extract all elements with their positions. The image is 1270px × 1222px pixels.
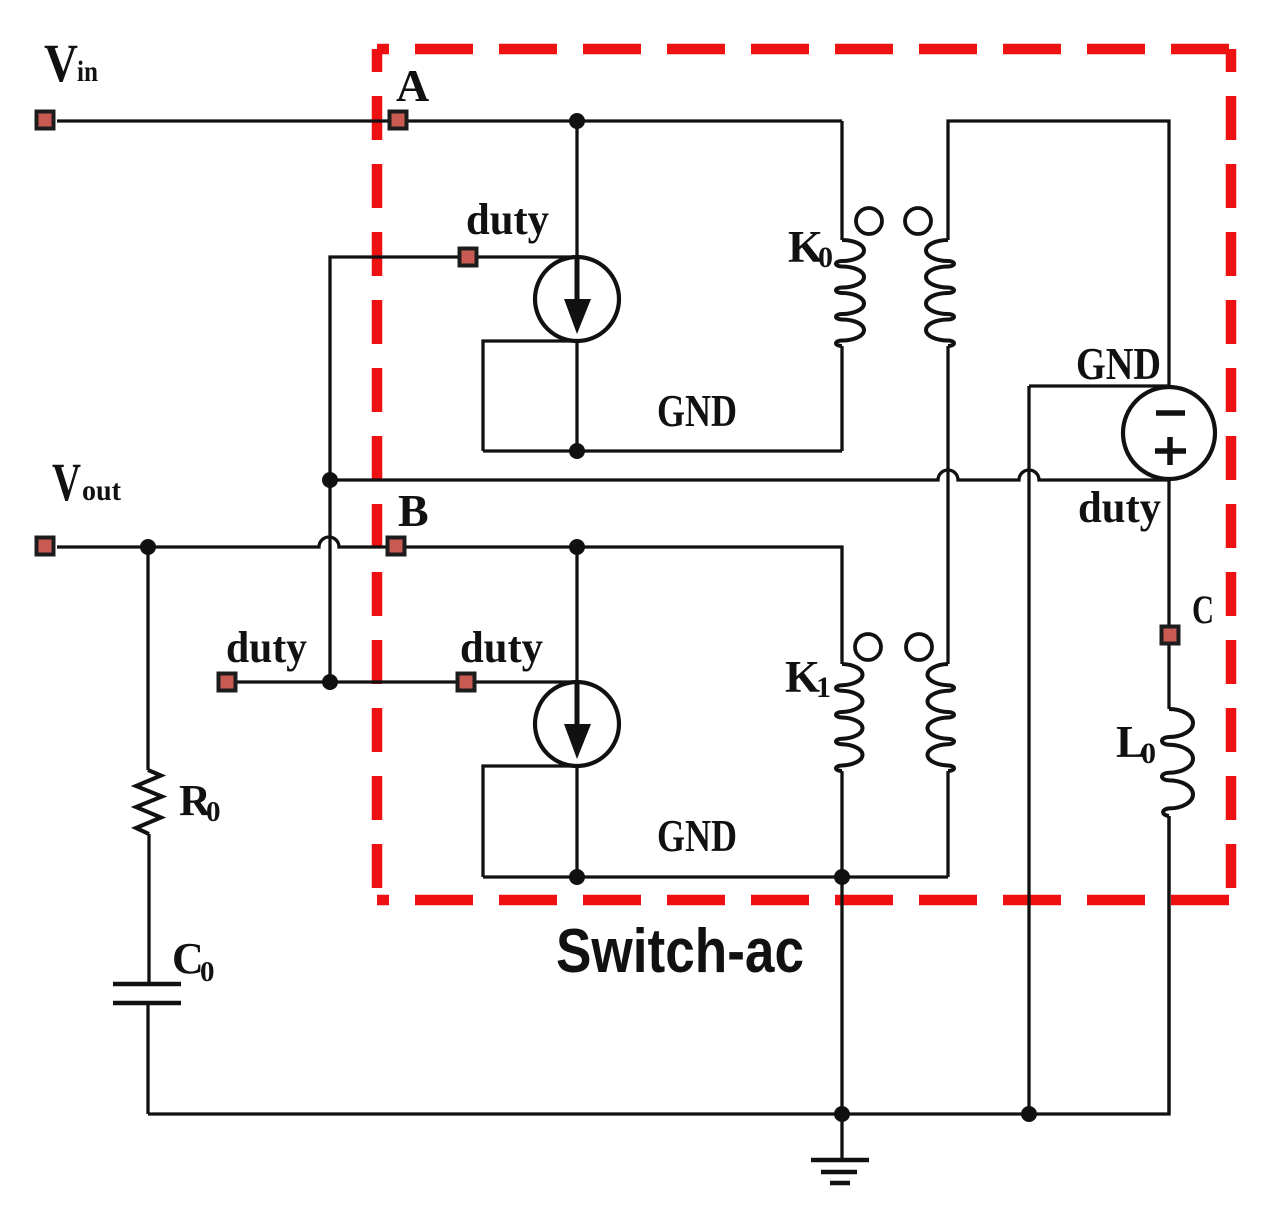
transformer K0 left winding	[836, 121, 864, 451]
wire lower GND rail	[483, 875, 948, 878]
wire R0 to C0	[147, 834, 150, 982]
svg-text:in: in	[77, 55, 98, 88]
wire C0 to bottom rail	[146, 1005, 149, 1114]
transformer K1 polarity dot right	[906, 634, 932, 660]
svg-text:K: K	[785, 652, 820, 702]
svg-text:0: 0	[200, 956, 215, 988]
junction B rail	[569, 539, 585, 555]
transformer K0 polarity dot right	[905, 208, 931, 234]
svg-text:C: C	[1192, 587, 1214, 632]
wire Vout branch down to R0	[146, 547, 149, 770]
svg-text:duty: duty	[460, 623, 543, 672]
port node A	[390, 112, 407, 129]
port duty left	[219, 674, 236, 691]
svg-text:GND: GND	[657, 385, 737, 436]
wire duty1 horizontal and down-left vertical	[330, 257, 577, 682]
svg-text:duty: duty	[1078, 483, 1161, 532]
transformer K1 right winding	[928, 664, 954, 877]
junction top at A rail	[569, 113, 585, 129]
wire duty net long horizontal with hops	[330, 470, 1169, 480]
svg-text:duty: duty	[226, 623, 307, 672]
wire G2 bottom to junction	[575, 766, 578, 877]
junction duty2	[322, 674, 338, 690]
wire x577 from top wire down to current source U1	[575, 121, 578, 257]
svg-text:duty: duty	[466, 195, 549, 244]
svg-text:V: V	[52, 452, 81, 512]
wire G1 bottom to junction	[575, 341, 578, 451]
port Vin	[37, 112, 54, 129]
svg-text:0: 0	[818, 241, 833, 274]
port Vout	[37, 538, 54, 555]
ground symbol	[811, 1160, 869, 1183]
Switch-ac dashed boundary box	[377, 49, 1231, 900]
svg-text:GND: GND	[657, 810, 737, 861]
port duty mid	[458, 674, 475, 691]
junction bottom rail ground	[834, 1106, 850, 1122]
wire Vin to A to top junction to K0 left	[57, 119, 842, 122]
junction upper GND rail	[569, 443, 585, 459]
wire G2 sense loop	[483, 766, 577, 877]
controlled voltage source E1	[1123, 387, 1215, 479]
wire x1029 vertical to bottom rail	[1027, 386, 1030, 1114]
wire voltage source bottom through C port to L0	[1167, 479, 1170, 709]
transformer K0 polarity dot left	[856, 208, 882, 234]
transformer K1 polarity dot left	[855, 634, 881, 660]
wire Vout to B to K1 left top	[57, 537, 842, 664]
junction duty long wire start	[322, 472, 338, 488]
wire upper GND rail	[483, 449, 842, 452]
current source G1	[535, 257, 619, 341]
svg-text:C: C	[172, 934, 204, 983]
svg-text:Switch-ac: Switch-ac	[556, 917, 804, 986]
svg-text:B: B	[398, 485, 429, 536]
junction bottom rail x1029	[1021, 1106, 1037, 1122]
svg-text:1: 1	[816, 671, 831, 704]
current source G2	[535, 682, 619, 766]
wire x577 from B down to current source G2	[575, 547, 578, 682]
svg-text:GND: GND	[1076, 338, 1161, 389]
capacitor C0	[113, 984, 181, 1003]
port duty upper	[460, 249, 477, 266]
port node C	[1162, 627, 1179, 644]
junction Vout R0 branch	[140, 539, 156, 555]
inductor L0	[1162, 709, 1193, 1114]
svg-text:0: 0	[1141, 737, 1156, 770]
svg-text:V: V	[44, 33, 78, 93]
junction lower GND rail	[569, 869, 585, 885]
wire duty2 horizontal	[237, 680, 577, 683]
wire G1 sense loop upper	[483, 341, 577, 451]
wire GND to voltage source top	[1029, 384, 1169, 387]
wire bottom rail	[148, 816, 1169, 1114]
transformer K0 right winding	[926, 121, 1169, 664]
svg-text:out: out	[82, 474, 121, 507]
port node B	[388, 538, 405, 555]
junction K1 bottom ground line	[834, 869, 850, 885]
transformer K1 left winding	[836, 664, 862, 1158]
resistor R0	[136, 770, 162, 834]
svg-text:0: 0	[206, 796, 221, 828]
svg-text:A: A	[396, 60, 429, 111]
